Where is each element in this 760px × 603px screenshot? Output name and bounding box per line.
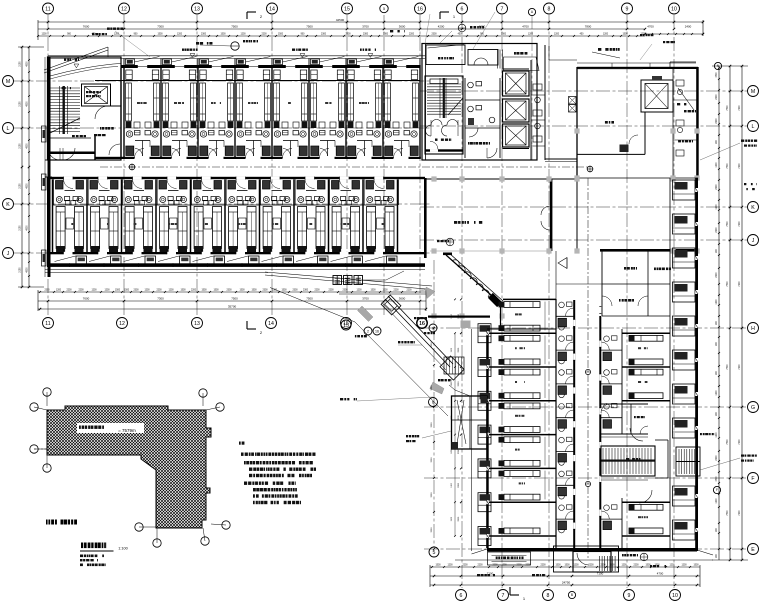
- svg-text:2200: 2200: [477, 565, 483, 567]
- svg-text:2200: 2200: [540, 565, 546, 567]
- corridor centerline: [100, 166, 588, 168]
- key plan hatched L-shape: [47, 406, 211, 528]
- svg-text:7500: 7500: [231, 297, 238, 301]
- dimension chain bottom of right wing: [430, 566, 700, 568]
- svg-text:3300: 3300: [431, 527, 433, 533]
- svg-text:7200: 7200: [739, 105, 741, 111]
- wing top edge walls: [487, 328, 556, 330]
- svg-text:2200: 2200: [328, 290, 334, 292]
- svg-text:3300: 3300: [431, 385, 433, 391]
- label power-shaft fake glyphs: [333, 276, 342, 285]
- svg-text:1500: 1500: [239, 290, 245, 292]
- grid bubble: [748, 323, 759, 334]
- svg-text:2200: 2200: [78, 290, 84, 292]
- notes block: [239, 442, 241, 445]
- svg-text:2300: 2300: [345, 34, 351, 36]
- grid bubble: [429, 547, 439, 557]
- bottom row rooms: [52, 179, 54, 252]
- svg-text:2200: 2200: [633, 565, 639, 567]
- svg-text:K: K: [751, 205, 755, 211]
- svg-text:G: G: [751, 405, 755, 411]
- roof line above right block: [577, 62, 696, 64]
- grid bubble: [748, 473, 759, 484]
- grid bubble: [748, 402, 759, 413]
- grid bubble: [568, 591, 575, 598]
- grid bubble: [528, 8, 535, 15]
- level marks top-left: [74, 64, 79, 68]
- svg-text:5: 5: [383, 7, 385, 11]
- svg-text:2300: 2300: [342, 290, 348, 292]
- grid bubble: [417, 318, 427, 328]
- left outer wall: [48, 57, 51, 277]
- svg-text:1200: 1200: [716, 498, 718, 504]
- smoke vestibule west block: [452, 396, 488, 449]
- svg-text:J: J: [7, 251, 10, 257]
- svg-text:E: E: [751, 547, 755, 553]
- wing south wall: [487, 548, 697, 552]
- svg-text:1200: 1200: [168, 290, 174, 292]
- right block inner walls: [644, 112, 646, 154]
- svg-text:24750: 24750: [562, 581, 571, 585]
- svg-text:1200: 1200: [240, 34, 246, 36]
- svg-text:F: F: [751, 476, 754, 482]
- grid bubble: [748, 121, 759, 132]
- mid partition rooms right column: [601, 403, 648, 405]
- single elevator: [641, 80, 673, 112]
- svg-text:8: 8: [547, 593, 550, 599]
- south entrance porch: [554, 546, 619, 572]
- grid bubble: [429, 324, 437, 332]
- svg-text:11: 11: [45, 6, 50, 12]
- svg-text:3700: 3700: [362, 297, 369, 301]
- svg-text:1200: 1200: [91, 290, 97, 292]
- grid bubble: [342, 3, 353, 14]
- svg-text:H: H: [751, 326, 755, 332]
- svg-text:1500: 1500: [693, 565, 699, 567]
- grid bubble: [364, 327, 372, 335]
- core outline: [422, 44, 537, 161]
- grid bubble: [429, 398, 438, 407]
- wing right rooms: [621, 329, 623, 434]
- svg-text:2300: 2300: [363, 34, 369, 36]
- svg-text:4900: 4900: [27, 267, 29, 273]
- grid bubble: [497, 3, 508, 14]
- staircase left treads: [48, 87, 80, 89]
- grid bubble: [415, 3, 426, 14]
- grid bubble: [456, 590, 467, 601]
- svg-text:12: 12: [121, 6, 127, 12]
- svg-text:2180: 2180: [20, 267, 22, 273]
- grid bubble: [748, 544, 759, 555]
- svg-text:7500: 7500: [727, 163, 729, 169]
- svg-text:2300: 2300: [226, 290, 232, 292]
- svg-text:3600: 3600: [399, 297, 406, 301]
- grid bubble: [380, 4, 388, 12]
- svg-text:2200: 2200: [156, 290, 162, 292]
- lobby node circle: [587, 166, 593, 172]
- grid bubble: [117, 318, 128, 329]
- svg-text:7500: 7500: [306, 25, 313, 29]
- key plan label box: [77, 423, 144, 433]
- svg-text:13: 13: [194, 6, 200, 12]
- svg-text:1200: 1200: [177, 34, 183, 36]
- svg-text:4900: 4900: [27, 225, 29, 231]
- svg-text:13: 13: [194, 321, 200, 327]
- svg-text:7200: 7200: [739, 281, 741, 287]
- svg-text:2180: 2180: [20, 225, 22, 231]
- grid bubble: [670, 590, 681, 601]
- svg-text:1500: 1500: [555, 565, 561, 567]
- svg-text:3600: 3600: [399, 25, 406, 29]
- svg-text:2300: 2300: [501, 34, 507, 36]
- svg-text:2200: 2200: [462, 565, 468, 567]
- svg-text:3300: 3300: [458, 415, 460, 421]
- svg-text:1200: 1200: [104, 290, 110, 292]
- extra top annotations: [92, 33, 94, 35]
- svg-text:6: 6: [460, 593, 463, 599]
- top-left roof label: [107, 28, 110, 30]
- shaft with X top-left: [82, 84, 111, 106]
- grid bubble: [3, 123, 14, 134]
- svg-text:11: 11: [45, 321, 50, 327]
- grid bubble: [669, 3, 680, 14]
- grid bubble: [341, 320, 351, 330]
- svg-text:2180: 2180: [20, 143, 22, 149]
- svg-text:1200: 1200: [144, 290, 150, 292]
- svg-text:7300: 7300: [157, 297, 164, 301]
- svg-text:2300: 2300: [272, 290, 278, 292]
- svg-text:1500: 1500: [281, 290, 287, 292]
- svg-text:2200: 2200: [716, 94, 718, 100]
- svg-text:2200: 2200: [409, 34, 415, 36]
- svg-text:2300: 2300: [321, 34, 327, 36]
- left wall protrusions: [42, 126, 47, 142]
- svg-text:12: 12: [119, 321, 125, 327]
- column squares right block: [574, 128, 579, 133]
- svg-text:2180: 2180: [20, 183, 22, 189]
- svg-text:1200: 1200: [716, 432, 718, 438]
- svg-text:7: 7: [502, 593, 505, 599]
- svg-text:2300: 2300: [303, 290, 309, 292]
- section marks: [247, 11, 256, 13]
- lobby columns: [431, 176, 436, 181]
- svg-text:2300: 2300: [431, 34, 437, 36]
- svg-text:4200: 4200: [438, 25, 445, 29]
- gray arrows: [358, 306, 374, 322]
- svg-text:1500: 1500: [213, 290, 219, 292]
- svg-text:B: B: [571, 593, 573, 597]
- grid lines vertical: [47, 15, 49, 317]
- grid bubble: [373, 327, 381, 335]
- svg-text:1500: 1500: [435, 565, 441, 567]
- svg-text:M: M: [6, 79, 10, 85]
- key plan title: [46, 520, 48, 525]
- svg-text:7: 7: [501, 6, 504, 12]
- svg-text:1200: 1200: [528, 34, 534, 36]
- svg-text:10: 10: [672, 593, 678, 599]
- grid bubble: [622, 3, 633, 14]
- dimension chain top: [38, 21, 703, 23]
- svg-text:7200: 7200: [739, 364, 741, 370]
- svg-text:1500: 1500: [180, 290, 186, 292]
- svg-text:16: 16: [375, 329, 379, 333]
- svg-text:6: 6: [461, 6, 464, 12]
- corridor wall upper: [123, 157, 134, 159]
- svg-text:2200: 2200: [261, 34, 267, 36]
- core right strip fixtures: [530, 60, 532, 160]
- svg-text:1500: 1500: [716, 476, 718, 482]
- core staircase: [425, 76, 463, 154]
- svg-text:14: 14: [269, 6, 275, 12]
- wing stair: [601, 446, 655, 476]
- grid bubble: [119, 3, 130, 14]
- svg-text:1500: 1500: [564, 565, 570, 567]
- grid bubble: [267, 3, 278, 14]
- svg-text:2200: 2200: [406, 290, 412, 292]
- roof terrace outline: [549, 59, 577, 61]
- svg-text:J: J: [752, 238, 755, 244]
- svg-text:4700: 4700: [657, 572, 664, 576]
- grid lines horizontal: [14, 80, 430, 82]
- curved lobby wall + levels: [50, 64, 121, 77]
- plaza step edge: [265, 272, 432, 286]
- right margin annotations: [741, 140, 744, 142]
- svg-text:2300: 2300: [383, 34, 389, 36]
- corner wall: [500, 303, 502, 330]
- svg-text:7500: 7500: [727, 221, 729, 227]
- corridor wall lower: [47, 177, 425, 179]
- dimension chain right: [718, 66, 720, 560]
- svg-text:3300: 3300: [431, 342, 433, 348]
- grid bubble: [748, 235, 759, 246]
- svg-text:16: 16: [419, 321, 425, 327]
- ticks on grid 5 line: [433, 327, 435, 329]
- svg-text:F: F: [716, 488, 718, 492]
- svg-text:7800: 7800: [585, 25, 592, 29]
- svg-text:2: 2: [367, 329, 369, 333]
- svg-text:2300: 2300: [262, 290, 268, 292]
- svg-text:1500: 1500: [278, 34, 284, 36]
- svg-text:7500: 7500: [727, 510, 729, 516]
- svg-text:10: 10: [671, 6, 677, 12]
- svg-text:2200: 2200: [393, 290, 399, 292]
- svg-text:2300: 2300: [201, 34, 207, 36]
- lower left wall: [47, 179, 50, 267]
- top outer wall: [121, 65, 420, 68]
- grid bubble: [624, 590, 635, 601]
- svg-text:2200: 2200: [716, 227, 718, 233]
- wing corridor walls: [573, 300, 575, 548]
- grid bubble: [498, 590, 509, 601]
- dimension chain bottom of top wing: [38, 291, 426, 293]
- svg-text:2180: 2180: [20, 61, 22, 67]
- svg-text:1200: 1200: [356, 290, 362, 292]
- svg-text:1500: 1500: [124, 290, 130, 292]
- svg-text:2300: 2300: [292, 290, 298, 292]
- svg-text:3300: 3300: [431, 492, 433, 498]
- svg-text:1200: 1200: [716, 390, 718, 396]
- bottom outer wall: [47, 263, 425, 267]
- svg-text:4700: 4700: [647, 25, 654, 29]
- entrance labels: [477, 574, 480, 576]
- svg-text:7500: 7500: [727, 364, 729, 370]
- svg-text:16: 16: [417, 6, 423, 12]
- svg-text:15: 15: [343, 323, 349, 329]
- top wing outer walls: [44, 47, 108, 70]
- svg-text:2200: 2200: [716, 184, 718, 190]
- lobby lower walls: [428, 316, 490, 318]
- svg-text:3300: 3300: [431, 422, 433, 428]
- svg-text:L: L: [7, 126, 10, 132]
- grid line 5: [433, 260, 435, 547]
- svg-text:2200: 2200: [588, 565, 594, 567]
- horizontal wall: [600, 249, 698, 252]
- svg-text:7600: 7600: [83, 297, 90, 301]
- grid bubble: [748, 202, 759, 213]
- svg-text:1500: 1500: [201, 290, 207, 292]
- wing left bathrooms: [555, 299, 557, 548]
- svg-text:2200: 2200: [716, 118, 718, 124]
- svg-text:3300: 3300: [458, 381, 460, 387]
- svg-text:7500: 7500: [727, 281, 729, 287]
- grid bubble: [543, 590, 554, 601]
- svg-text:7500: 7500: [727, 439, 729, 445]
- svg-text:2200: 2200: [716, 455, 718, 461]
- svg-text:1200: 1200: [382, 290, 388, 292]
- svg-text:2200: 2200: [191, 290, 197, 292]
- vertical wall: [550, 179, 553, 251]
- grid bubble: [3, 199, 14, 210]
- svg-text:1200: 1200: [447, 565, 453, 567]
- svg-text:= 7579m: = 7579m: [118, 428, 136, 433]
- svg-text:1500: 1500: [220, 34, 226, 36]
- east outer wall: [695, 178, 698, 551]
- svg-text:2200: 2200: [600, 565, 606, 567]
- svg-text:7600: 7600: [83, 25, 90, 29]
- grid bubble: [713, 486, 720, 493]
- svg-text:4900: 4900: [27, 143, 29, 149]
- svg-text:1200: 1200: [41, 34, 47, 36]
- grid bubble: [457, 3, 468, 14]
- svg-text:7200: 7200: [739, 510, 741, 516]
- wing right bathrooms: [604, 336, 610, 342]
- svg-text:7500: 7500: [727, 105, 729, 111]
- grid bubble: [748, 86, 759, 97]
- svg-text:L: L: [752, 124, 755, 130]
- hatched strip canopy: [444, 357, 464, 374]
- svg-text:7200: 7200: [739, 163, 741, 169]
- svg-text:3300: 3300: [458, 516, 460, 522]
- french door wall bottom: [47, 252, 425, 254]
- west lobby wall: [424, 178, 427, 258]
- grid bubble: [3, 76, 14, 87]
- vestibule below: [95, 105, 121, 107]
- grid bubble: [3, 248, 14, 259]
- svg-text:2200: 2200: [66, 290, 72, 292]
- svg-text:1500: 1500: [251, 290, 257, 292]
- parapet line: [48, 55, 425, 57]
- svg-text:4900: 4900: [27, 101, 29, 107]
- elevator shafts x3: [503, 71, 530, 96]
- svg-text:2180: 2180: [20, 101, 22, 107]
- balcony band bottom: [76, 256, 87, 264]
- svg-text:1200: 1200: [603, 34, 609, 36]
- svg-text:1500: 1500: [622, 34, 628, 36]
- svg-text:7500: 7500: [306, 297, 313, 301]
- drawing title: [81, 543, 83, 549]
- svg-text:4900: 4900: [27, 61, 29, 67]
- svg-text:3300: 3300: [458, 482, 460, 488]
- svg-text:35700: 35700: [228, 305, 237, 309]
- svg-text:1200: 1200: [681, 565, 687, 567]
- right top block walls: [577, 67, 698, 69]
- svg-text:1200: 1200: [716, 299, 718, 305]
- svg-text:1200: 1200: [716, 162, 718, 168]
- svg-text:3300: 3300: [458, 313, 460, 319]
- svg-text:2400: 2400: [685, 25, 692, 29]
- svg-text:K: K: [6, 202, 10, 208]
- west wall: [486, 329, 489, 548]
- svg-text:42500: 42500: [336, 18, 345, 22]
- grid bubble: [266, 318, 277, 329]
- svg-text:1500: 1500: [115, 290, 121, 292]
- stair landing + arcs: [48, 137, 91, 139]
- svg-text:8: 8: [548, 6, 551, 12]
- svg-text:7300: 7300: [157, 25, 164, 29]
- svg-text:7500: 7500: [231, 25, 238, 29]
- interior dim chain on grid 6: [460, 298, 462, 300]
- svg-text:3300: 3300: [458, 347, 460, 353]
- corner diagonal + curtain: [446, 255, 500, 303]
- wing corridor centerline: [587, 178, 589, 558]
- key plan bubbles: [43, 388, 51, 396]
- grid bubble: [714, 62, 721, 69]
- grid bubble: [341, 318, 352, 329]
- svg-text:2300: 2300: [44, 290, 50, 292]
- grid bubble: [43, 318, 54, 329]
- svg-text:4900: 4900: [27, 183, 29, 189]
- dimension chain left: [21, 47, 23, 287]
- svg-text:3300: 3300: [431, 457, 433, 463]
- svg-text:7200: 7200: [739, 439, 741, 445]
- svg-text:1:100: 1:100: [118, 547, 128, 551]
- svg-text:1500: 1500: [157, 34, 163, 36]
- svg-text:3700: 3700: [362, 25, 369, 29]
- svg-text:2200: 2200: [314, 290, 320, 292]
- svg-text:2200: 2200: [716, 272, 718, 278]
- top row rooms: dividers, AC units, beds, bathrooms: [123, 58, 125, 65]
- svg-text:4700: 4700: [522, 25, 529, 29]
- grid bubble: [417, 318, 428, 329]
- canopy walkway diagonal: [385, 299, 450, 367]
- svg-text:M: M: [751, 89, 755, 95]
- svg-text:9: 9: [626, 6, 629, 12]
- exterior escape stair: [676, 447, 700, 476]
- svg-text:1200: 1200: [56, 290, 62, 292]
- svg-text:9: 9: [628, 593, 631, 599]
- svg-text:5: 5: [433, 550, 436, 556]
- svg-text:1500: 1500: [716, 72, 718, 78]
- core top rooms: [426, 45, 465, 65]
- grid bubble: [544, 3, 555, 14]
- svg-text:1200: 1200: [716, 204, 718, 210]
- svg-text:1500: 1500: [370, 290, 376, 292]
- svg-text:1200: 1200: [420, 290, 426, 292]
- plaza edge diagonal: [355, 322, 448, 416]
- svg-text:15: 15: [344, 6, 350, 12]
- svg-text:1200: 1200: [554, 34, 560, 36]
- east rooms along lobby: [601, 251, 603, 316]
